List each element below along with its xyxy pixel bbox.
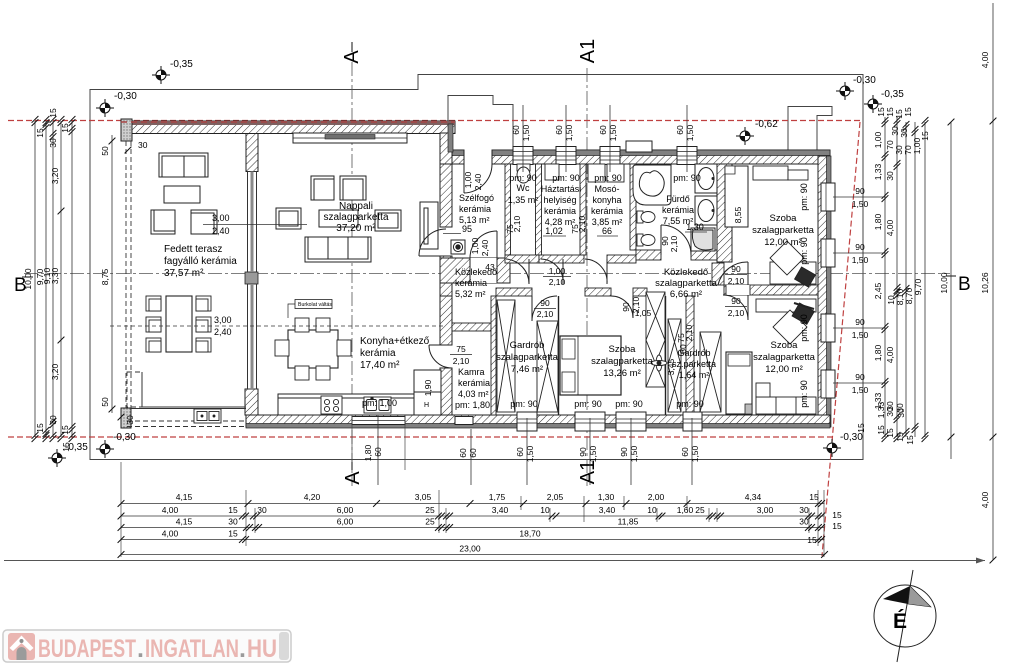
roof outline	[90, 75, 863, 460]
svg-text:1,30: 1,30	[686, 222, 704, 232]
boiler	[451, 240, 465, 254]
living-szelfogo door arc	[419, 229, 446, 256]
BR office chair	[792, 303, 814, 324]
svg-text:kerámia: kerámia	[458, 378, 490, 388]
red level line overlay on wall edge	[121, 121, 455, 123]
terrace inner floor edge	[142, 372, 246, 407]
svg-text:15: 15	[832, 521, 842, 531]
north window moso	[600, 147, 620, 165]
svg-text:1,33: 1,33	[873, 163, 883, 180]
terrace dashed edges	[126, 141, 246, 427]
svg-text:37,57 m²: 37,57 m²	[164, 268, 204, 279]
east window BR b	[821, 370, 835, 398]
svg-text:30: 30	[885, 407, 895, 417]
room label kozlekedo szp	[655, 267, 718, 300]
svg-text:A1: A1	[577, 39, 599, 63]
svg-text:30: 30	[799, 517, 809, 527]
terrace doormat	[194, 409, 221, 423]
room label gardrob	[496, 340, 559, 375]
terrace column bottom-left	[121, 408, 131, 428]
svg-text:3,30: 3,30	[50, 267, 60, 284]
TR dresser row	[753, 166, 808, 180]
partition moso/furdo	[630, 164, 636, 250]
BR desk	[756, 299, 816, 344]
kitchen table	[288, 330, 338, 368]
north window dim leaders	[523, 105, 687, 172]
right chain ticks	[882, 117, 955, 442]
south window kamra	[455, 417, 473, 425]
svg-text:B: B	[958, 274, 971, 295]
svg-text:1,50: 1,50	[629, 445, 639, 462]
bottom dim chain L2	[118, 505, 842, 520]
svg-text:BUDAPEST: BUDAPEST	[38, 635, 136, 663]
svg-text:15: 15	[48, 108, 58, 118]
svg-text:2,40: 2,40	[212, 226, 230, 236]
svg-text:2,10: 2,10	[684, 324, 694, 341]
room label kozlekedo ker	[455, 267, 497, 299]
svg-text:1,75: 1,75	[489, 492, 506, 502]
svg-text:-0,30: -0,30	[853, 75, 876, 86]
svg-text:30: 30	[138, 140, 148, 150]
svg-text:1,50: 1,50	[852, 199, 869, 209]
svg-text:1,80: 1,80	[873, 213, 883, 230]
svg-text:1,50: 1,50	[608, 124, 618, 141]
svg-text:Kamra: Kamra	[458, 367, 485, 377]
bottom dim chain L3	[118, 517, 842, 532]
far right 4,00 10,26 line	[980, 3, 996, 563]
living coffee table	[319, 210, 358, 227]
svg-text:2,10: 2,10	[577, 215, 587, 232]
svg-text:pm: 90: pm: 90	[615, 399, 643, 409]
kitchen counter	[278, 394, 441, 415]
svg-text:A1: A1	[577, 460, 599, 484]
svg-text:1,50: 1,50	[852, 385, 869, 395]
svg-text:1,50: 1,50	[588, 445, 598, 462]
furdo sink 2	[695, 196, 717, 225]
living sofa	[305, 237, 371, 262]
svg-text:15: 15	[60, 123, 70, 133]
kitchen chairs	[275, 318, 351, 380]
furdo bidet	[637, 234, 655, 246]
living armchair 1	[311, 176, 334, 200]
north band left wing	[121, 121, 455, 134]
entrance porch outline	[448, 96, 513, 153]
terrace-living divider wall	[245, 134, 258, 416]
svg-text:15: 15	[228, 529, 238, 539]
east window TR a	[821, 183, 835, 211]
svg-text:2,40: 2,40	[480, 239, 490, 256]
north band right wing	[451, 149, 830, 165]
svg-text:1,50: 1,50	[685, 124, 695, 141]
svg-text:2,00: 2,00	[648, 492, 665, 502]
svg-text:Fürdő: Fürdő	[666, 194, 690, 204]
svg-text:Fedett terasz: Fedett terasz	[164, 244, 222, 255]
haztartasi fixture	[545, 164, 559, 180]
svg-text:fagyálló kerámia: fagyálló kerámia	[164, 256, 237, 267]
g164 door dims	[676, 324, 694, 353]
svg-text:-0,62: -0,62	[755, 119, 778, 130]
partition szelfogo/wc	[505, 164, 511, 255]
south window szoba1326 b	[616, 412, 646, 431]
svg-text:13,26 m²: 13,26 m²	[603, 368, 641, 379]
terrace column top-left	[121, 119, 132, 141]
kamra north wall	[452, 323, 496, 331]
svg-text:4,15: 4,15	[176, 517, 193, 527]
room label kamra	[455, 367, 490, 410]
svg-text:2,10: 2,10	[537, 309, 554, 319]
haztartasi door arc	[541, 259, 563, 284]
svg-text:-0,30: -0,30	[840, 432, 863, 443]
room label wc	[508, 173, 539, 205]
entrance door arc	[464, 164, 492, 193]
svg-text:kerámia: kerámia	[360, 348, 396, 359]
room label szoba TR	[752, 213, 815, 248]
moso door arc	[585, 259, 607, 284]
burkolat valtas box	[288, 300, 332, 319]
svg-text:5,32 m²: 5,32 m²	[455, 289, 486, 299]
svg-text:pm: 90: pm: 90	[509, 173, 537, 183]
svg-text:Közlekedő: Közlekedő	[664, 267, 708, 278]
svg-text:43: 43	[485, 262, 495, 272]
svg-text:.: .	[239, 635, 246, 663]
svg-text:15: 15	[832, 510, 842, 520]
svg-text:A: A	[342, 471, 364, 485]
svg-text:-0,30: -0,30	[114, 91, 137, 102]
svg-text:90: 90	[855, 372, 865, 382]
svg-text:2,45: 2,45	[873, 282, 883, 299]
horizontal dashed dim line mid	[110, 325, 445, 327]
wc door arc	[506, 259, 529, 284]
svg-text:pm: 90: pm: 90	[676, 399, 704, 409]
svg-text:15: 15	[903, 107, 913, 117]
cooktop	[321, 396, 342, 414]
svg-text:4,00: 4,00	[980, 51, 990, 68]
svg-text:25: 25	[425, 505, 435, 515]
svg-text:kerámia: kerámia	[455, 278, 487, 288]
svg-text:1,00: 1,00	[470, 237, 480, 254]
svg-text:konyha: konyha	[592, 195, 621, 205]
svg-text:1,00: 1,00	[873, 131, 883, 148]
benchmark markers	[96, 99, 114, 117]
svg-text:Háztartási: Háztartási	[541, 184, 582, 194]
svg-text:2,10: 2,10	[512, 215, 522, 232]
svg-text:-0,35: -0,35	[170, 59, 193, 70]
szoba1326 west line	[558, 296, 560, 415]
bed szoba BR	[726, 352, 752, 414]
partition wc/haztartasi	[536, 164, 542, 255]
svg-text:pm: 90: pm: 90	[574, 399, 602, 409]
svg-text:1,64 m²: 1,64 m²	[679, 370, 710, 380]
svg-text:pm: 90: pm: 90	[799, 183, 809, 211]
svg-text:30: 30	[48, 138, 58, 148]
svg-text:.: .	[137, 635, 144, 663]
svg-text:60: 60	[675, 125, 685, 135]
svg-text:4,00: 4,00	[980, 491, 990, 508]
svg-text:50: 50	[100, 146, 110, 156]
svg-text:1,02: 1,02	[545, 226, 563, 236]
svg-text:60: 60	[554, 125, 564, 135]
svg-text:kerámia: kerámia	[591, 206, 623, 216]
furdo sink 1	[695, 164, 717, 193]
svg-text:23,00: 23,00	[459, 544, 481, 554]
svg-text:szalagparketta: szalagparketta	[753, 352, 816, 363]
svg-text:szalagparketta: szalagparketta	[752, 225, 815, 236]
svg-text:25: 25	[425, 517, 435, 527]
south band	[246, 415, 830, 428]
svg-text:30: 30	[799, 505, 809, 515]
svg-text:15: 15	[885, 428, 895, 438]
svg-text:H: H	[424, 402, 429, 409]
svg-text:50: 50	[100, 397, 110, 407]
szelfogo south door arc	[470, 231, 497, 258]
red boundary diagonal	[822, 122, 860, 556]
svg-text:3,00: 3,00	[757, 505, 774, 515]
south window dim leaders	[378, 415, 692, 485]
living east wall	[440, 164, 452, 227]
TR desk	[770, 241, 816, 284]
terrace armchair 1	[151, 210, 175, 234]
svg-text:pm: 90: pm: 90	[510, 399, 538, 409]
wardrobe X szoba1326 east	[646, 292, 665, 387]
section line A1	[586, 68, 588, 486]
svg-text:szalagparketta: szalagparketta	[323, 212, 388, 223]
ground line	[4, 560, 985, 562]
room label nappali	[323, 201, 388, 234]
furdo-szoba thick wall	[717, 164, 732, 262]
north window szoba TR	[677, 147, 697, 165]
terrace coffee table	[164, 186, 200, 203]
svg-text:30: 30	[228, 517, 238, 527]
svg-text:3,00: 3,00	[214, 315, 232, 325]
svg-text:6,66 m²: 6,66 m²	[670, 289, 702, 300]
svg-text:30: 30	[885, 171, 895, 181]
left dim chain lines	[35, 121, 72, 437]
svg-text:18,70: 18,70	[519, 529, 541, 539]
svg-text:3,05: 3,05	[415, 492, 432, 502]
east window TR b	[821, 239, 835, 267]
svg-text:Szoba: Szoba	[770, 213, 798, 224]
svg-text:3,20: 3,20	[50, 363, 60, 380]
shower tray	[691, 228, 715, 251]
svg-text:Szoba: Szoba	[771, 340, 799, 351]
BR south wardrobes	[756, 383, 816, 414]
svg-text:6,00: 6,00	[337, 505, 354, 515]
terrace chairs left	[146, 296, 161, 352]
svg-text:1,35 m²: 1,35 m²	[508, 195, 539, 205]
svg-text:szalagparketta: szalagparketta	[496, 352, 559, 363]
TR office chair	[795, 267, 816, 287]
svg-text:4,15: 4,15	[176, 492, 193, 502]
svg-text:1,50: 1,50	[521, 124, 531, 141]
gardrob door arc	[532, 296, 557, 321]
svg-text:60: 60	[373, 447, 383, 457]
svg-text:8,55: 8,55	[733, 206, 743, 223]
svg-text:Szélfogó: Szélfogó	[459, 193, 494, 203]
living side table right	[375, 210, 401, 231]
svg-text:-0,35: -0,35	[881, 89, 904, 100]
svg-text:10,26: 10,26	[980, 272, 990, 294]
svg-text:15: 15	[228, 505, 238, 515]
svg-text:2,10: 2,10	[669, 235, 679, 252]
svg-text:8,75: 8,75	[100, 268, 110, 285]
door dim labels szelfogo	[463, 171, 490, 256]
svg-text:15: 15	[809, 492, 819, 502]
moso washer	[588, 164, 605, 182]
svg-text:30: 30	[257, 505, 267, 515]
g164 walls	[665, 296, 667, 415]
wardrobe X gardrob right	[537, 321, 558, 412]
svg-text:90: 90	[578, 447, 588, 457]
svg-text:1,50: 1,50	[852, 330, 869, 340]
kamra door arc	[429, 345, 452, 368]
svg-text:10: 10	[540, 505, 550, 515]
svg-text:pm: 90: pm: 90	[594, 173, 622, 183]
bottom chain extension verticals	[121, 462, 824, 557]
living armchair 2	[340, 176, 366, 200]
svg-text:3,45: 3,45	[666, 358, 676, 375]
bed szoba1326	[560, 336, 621, 395]
svg-text:4,34: 4,34	[745, 492, 762, 502]
north window haztartasi	[556, 147, 576, 165]
fridge H	[414, 392, 441, 415]
svg-text:sz.parketta: sz.parketta	[672, 359, 716, 369]
svg-text:17,40 m²: 17,40 m²	[360, 360, 400, 371]
room label moso	[591, 173, 623, 236]
south window szoba1326 a	[575, 412, 605, 431]
svg-text:3,20: 3,20	[50, 167, 60, 184]
south window gardrob	[517, 412, 537, 431]
svg-text:pm: 90: pm: 90	[799, 380, 809, 408]
svg-text:15: 15	[35, 128, 45, 138]
svg-text:6,00: 6,00	[337, 517, 354, 527]
svg-text:Gardrób: Gardrób	[510, 340, 545, 351]
south window g164	[683, 412, 702, 431]
svg-text:1,05: 1,05	[635, 308, 652, 318]
svg-text:Szoba: Szoba	[609, 344, 637, 355]
right dim chain lines	[885, 117, 951, 459]
terrace dining table	[166, 296, 192, 352]
terrace dim labels	[203, 213, 307, 337]
door dim labels furdo	[660, 235, 679, 252]
szoba BR door arc	[723, 295, 748, 320]
TR cabinet tall	[725, 166, 748, 227]
room label szoba BR	[753, 340, 816, 375]
svg-text:kerámia: kerámia	[544, 206, 576, 216]
right chain labels	[856, 107, 949, 445]
gardrob west wall	[491, 296, 496, 415]
svg-text:90: 90	[731, 296, 741, 306]
svg-text:4,20: 4,20	[304, 492, 321, 502]
svg-text:30: 30	[48, 415, 58, 425]
svg-text:szalagparketta: szalagparketta	[591, 356, 654, 367]
east window dim leaders	[833, 197, 885, 383]
room label szelfogo	[443, 193, 494, 234]
north high window furdo	[626, 141, 652, 152]
svg-text:Burkolat váltás: Burkolat váltás	[298, 302, 332, 308]
svg-text:12,00 m²: 12,00 m²	[764, 237, 802, 248]
room label terasz	[164, 244, 237, 279]
svg-text:15: 15	[807, 535, 817, 545]
kitchen east wall	[440, 296, 452, 345]
svg-text:1,30: 1,30	[598, 492, 615, 502]
svg-text:szalagparketta: szalagparketta	[655, 278, 718, 289]
svg-text:11,85: 11,85	[618, 517, 639, 527]
svg-text:4,03 m²: 4,03 m²	[458, 389, 489, 399]
NE porch outline	[788, 107, 832, 153]
living north window band	[293, 133, 407, 143]
svg-text:60: 60	[598, 125, 608, 135]
svg-text:80: 80	[678, 344, 688, 354]
wc toilet	[517, 164, 530, 183]
bottom dim chain L5	[118, 544, 828, 558]
terrace armchair 2	[191, 210, 217, 234]
svg-text:3,40: 3,40	[492, 505, 509, 515]
svg-text:15: 15	[60, 425, 70, 435]
svg-text:90: 90	[540, 298, 550, 308]
svg-text:HU: HU	[247, 635, 277, 663]
svg-text:10: 10	[647, 505, 657, 515]
svg-text:90: 90	[731, 264, 741, 274]
furdo door arc	[661, 225, 691, 255]
corridor east wall stub	[712, 263, 724, 285]
svg-text:4,00: 4,00	[162, 505, 179, 515]
svg-text:1,60: 1,60	[677, 505, 694, 515]
svg-text:75: 75	[456, 344, 466, 354]
top rooms south wall	[505, 255, 539, 263]
svg-text:pm: 90: pm: 90	[799, 314, 809, 342]
szoba1326 door arc	[611, 296, 633, 318]
szoba TR door arc	[718, 262, 748, 285]
svg-text:1,80: 1,80	[873, 344, 883, 361]
svg-text:15: 15	[895, 432, 905, 442]
left chain labels	[23, 108, 71, 452]
svg-text:pm: 1,00: pm: 1,00	[362, 398, 397, 408]
svg-text:2,40: 2,40	[214, 327, 232, 337]
svg-text:1,50: 1,50	[525, 445, 535, 462]
partition haztartasi/moso	[580, 164, 586, 255]
svg-text:90: 90	[855, 186, 865, 196]
pm labels south row	[510, 399, 704, 409]
svg-text:15: 15	[905, 435, 915, 445]
svg-text:2,40: 2,40	[473, 173, 483, 190]
furdo south wall	[636, 250, 661, 260]
corridor south wall TR szoba	[724, 285, 818, 295]
svg-text:1,50: 1,50	[852, 255, 869, 265]
svg-text:4,00: 4,00	[162, 529, 179, 539]
misc dims interior	[423, 206, 743, 396]
svg-text:1,00: 1,00	[549, 266, 566, 276]
terrace chairs right	[196, 296, 211, 352]
level labels	[65, 59, 904, 453]
svg-text:66: 66	[602, 226, 612, 236]
svg-text:Mosó-: Mosó-	[594, 184, 619, 194]
svg-text:pm: 90: pm: 90	[799, 237, 809, 265]
watermark	[3, 630, 291, 663]
east window BR a	[821, 314, 835, 342]
room label konyha	[360, 336, 430, 371]
svg-text:2,05: 2,05	[547, 492, 564, 502]
corridor dims	[485, 262, 747, 319]
compass	[874, 570, 936, 662]
svg-text:helyiség: helyiség	[543, 195, 576, 205]
svg-text:pm: 90: pm: 90	[673, 173, 701, 183]
svg-text:60: 60	[680, 447, 690, 457]
door dim labels wc hazt	[505, 215, 587, 233]
pantry cabinet	[414, 370, 441, 392]
svg-text:60: 60	[468, 448, 478, 458]
svg-text:15: 15	[35, 423, 45, 433]
east wall	[818, 156, 831, 427]
